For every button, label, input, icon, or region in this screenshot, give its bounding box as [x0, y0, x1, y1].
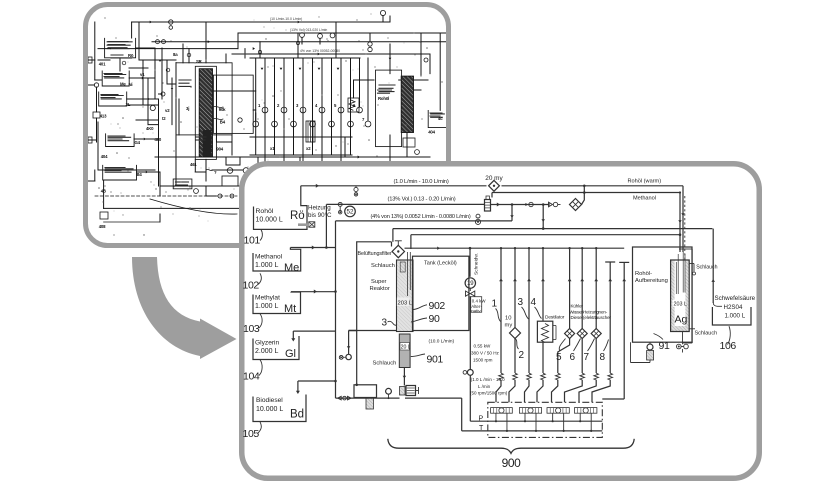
- svg-text:103: 103: [243, 323, 260, 335]
- svg-text:Ionen-: Ionen-: [595, 309, 608, 314]
- svg-text:Me: Me: [120, 82, 126, 87]
- svg-text:106: 106: [720, 340, 737, 352]
- svg-text:Rohöl-: Rohöl-: [635, 271, 652, 277]
- svg-text:203 L: 203 L: [674, 301, 688, 307]
- svg-text:91: 91: [659, 340, 670, 352]
- svg-text:8: 8: [600, 352, 606, 363]
- svg-text:Gl: Gl: [285, 348, 296, 360]
- svg-text:7: 7: [584, 352, 590, 363]
- svg-text:461: 461: [190, 162, 197, 167]
- svg-text:P: P: [479, 415, 484, 422]
- svg-text:(50 rpm/1500 rpm): (50 rpm/1500 rpm): [470, 391, 508, 396]
- svg-text:Mt: Mt: [284, 303, 296, 315]
- svg-text:Destilator: Destilator: [545, 315, 565, 321]
- svg-text:3: 3: [518, 297, 524, 308]
- svg-text:G4: G4: [135, 140, 141, 145]
- svg-text:(4% von 13%) 0.0052 L/min - 0.: (4% von 13%) 0.0052 L/min - 0.0080 L/min…: [370, 214, 470, 220]
- svg-text:380 V / 50 Hz: 380 V / 50 Hz: [471, 351, 500, 356]
- svg-text:Schwefelsäure: Schwefelsäure: [715, 295, 756, 302]
- svg-text:10: 10: [505, 316, 511, 322]
- svg-text:401: 401: [99, 62, 106, 67]
- svg-text:Rö: Rö: [128, 53, 134, 58]
- svg-text:4: 4: [531, 297, 537, 308]
- svg-text:Schlauch: Schlauch: [695, 330, 718, 336]
- svg-text:Rohöl: Rohöl: [256, 208, 274, 215]
- svg-text:Rö: Rö: [290, 210, 305, 222]
- svg-text:52: 52: [347, 209, 354, 216]
- svg-text:104: 104: [243, 370, 260, 382]
- svg-text:Methylat: Methylat: [255, 295, 280, 302]
- svg-text:(1.0 L /min - 10.0: (1.0 L /min - 10.0: [471, 377, 505, 382]
- svg-text:Methanol: Methanol: [255, 254, 283, 261]
- svg-text:Schlauch: Schlauch: [371, 263, 395, 269]
- svg-text:904: 904: [216, 147, 223, 152]
- svg-text:B4: B4: [137, 172, 143, 177]
- svg-text:1500 rpm: 1500 rpm: [473, 358, 493, 363]
- svg-text:19: 19: [467, 281, 474, 287]
- svg-text:90: 90: [429, 313, 440, 325]
- svg-text:Heizung: Heizung: [308, 204, 331, 211]
- svg-text:Ag: Ag: [675, 314, 688, 326]
- svg-text:Reaktor: Reaktor: [370, 286, 390, 292]
- svg-text:tauscher: tauscher: [595, 315, 612, 320]
- svg-text:Diesel: Diesel: [571, 315, 583, 320]
- svg-text:Glyzerin: Glyzerin: [255, 339, 280, 346]
- svg-text:bis 90°C: bis 90°C: [308, 212, 332, 219]
- svg-text:404: 404: [101, 154, 108, 159]
- svg-text:Biodiesel: Biodiesel: [256, 397, 283, 404]
- svg-text:408: 408: [99, 224, 106, 229]
- svg-text:0.4 kW: 0.4 kW: [472, 299, 487, 304]
- svg-text:3: 3: [382, 318, 388, 329]
- svg-text:Schneidw.: Schneidw.: [474, 253, 480, 275]
- svg-text:2.000 L: 2.000 L: [255, 348, 278, 355]
- svg-text:413: 413: [100, 114, 107, 119]
- svg-text:4K0: 4K0: [146, 126, 154, 131]
- svg-text:460: 460: [155, 137, 162, 142]
- svg-text:0.55 kW: 0.55 kW: [474, 344, 492, 349]
- svg-text:(10 L/min-10.0 L/min): (10 L/min-10.0 L/min): [270, 17, 302, 21]
- svg-text:Me: Me: [284, 262, 299, 274]
- svg-text:2: 2: [519, 350, 525, 361]
- svg-text:1.000 L: 1.000 L: [255, 303, 278, 310]
- svg-text:(1.0 L/min - 10.0 L/min): (1.0 L/min - 10.0 L/min): [393, 179, 448, 185]
- svg-text:Rohöl (warm): Rohöl (warm): [628, 178, 662, 184]
- svg-text:nativ: nativ: [471, 308, 481, 313]
- svg-text:1.000 L: 1.000 L: [725, 312, 746, 319]
- svg-text:Aufbereitung: Aufbereitung: [635, 278, 668, 284]
- svg-text:1.000 L: 1.000 L: [255, 262, 278, 269]
- svg-text:5: 5: [556, 352, 562, 363]
- svg-text:(10.0 L/min): (10.0 L/min): [429, 339, 455, 345]
- svg-text:20 L: 20 L: [401, 345, 411, 351]
- svg-text:Super: Super: [371, 279, 387, 285]
- svg-text:Schlauch: Schlauch: [373, 360, 397, 366]
- svg-text:404: 404: [428, 130, 435, 135]
- svg-text:my: my: [505, 322, 513, 328]
- svg-text:Schlauch: Schlauch: [696, 264, 717, 270]
- svg-text:Kühler: Kühler: [571, 304, 584, 309]
- svg-text:10.000 L: 10.000 L: [256, 217, 283, 224]
- svg-text:L /min: L /min: [478, 384, 491, 389]
- svg-text:Tank (Lecköl): Tank (Lecköl): [424, 260, 457, 266]
- svg-text:Methanol: Methanol: [633, 196, 656, 202]
- svg-text:902: 902: [429, 300, 446, 312]
- svg-text:900: 900: [502, 456, 522, 470]
- svg-text:(13% Vol.) 0.13 - 0.20 L/min): (13% Vol.) 0.13 - 0.20 L/min): [388, 197, 456, 203]
- svg-text:101: 101: [244, 235, 261, 247]
- svg-text:Belüftungsfilter: Belüftungsfilter: [358, 251, 392, 257]
- svg-text:H2S04: H2S04: [724, 304, 743, 311]
- svg-text:3j: 3j: [186, 106, 189, 111]
- svg-text:4% von 13% 00052-00080: 4% von 13% 00052-00080: [300, 49, 340, 53]
- svg-text:Ni: Ni: [129, 82, 133, 87]
- svg-text:102: 102: [243, 279, 260, 291]
- svg-text:1: 1: [492, 299, 498, 310]
- svg-text:B4: B4: [220, 120, 226, 125]
- svg-text:10.000 L: 10.000 L: [256, 406, 283, 413]
- svg-text:T: T: [479, 425, 484, 432]
- svg-text:105: 105: [243, 428, 260, 440]
- svg-text:203 L.: 203 L.: [398, 301, 415, 307]
- svg-text:Rohöl: Rohöl: [378, 96, 389, 101]
- svg-text:Bd: Bd: [290, 409, 304, 421]
- svg-text:(13% Vol) 013-020 L/min: (13% Vol) 013-020 L/min: [290, 28, 327, 32]
- svg-text:6: 6: [570, 352, 576, 363]
- svg-text:901: 901: [427, 354, 444, 366]
